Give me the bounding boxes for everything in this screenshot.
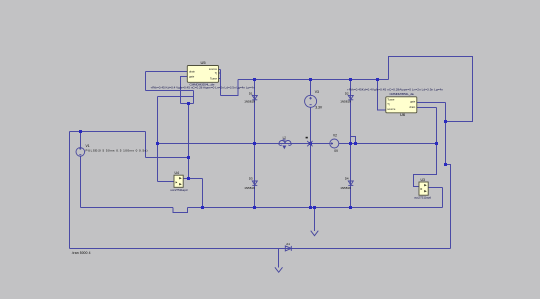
svg-text:PULSE(0 5 50ms 0.5 100ms 0 0.5: PULSE(0 5 50ms 0.5 100ms 0 0.5s): [86, 148, 148, 152]
wire drain U5 horizontal: [146, 71, 188, 73]
node mid rail end: [435, 142, 438, 145]
svg-text:D3: D3: [249, 176, 253, 180]
node rail D3: [253, 206, 256, 209]
wire U3 output drop to rail: [442, 188, 444, 208]
diode D2 symbol: [348, 95, 353, 99]
wire U5 source stub: [219, 69, 221, 71]
wire U6 drain out: [417, 107, 437, 109]
wire V1 stem top: [80, 132, 82, 148]
wire V3 leg lower: [310, 107, 312, 207]
svg-text:Tcase: Tcase: [210, 76, 218, 80]
wire mid-bottom rail left: [81, 207, 174, 209]
node V1 top junction: [79, 130, 82, 133]
source V2: [330, 139, 339, 148]
svg-text:ucc27511apd: ucc27511apd: [170, 188, 187, 192]
node top rail U6: [376, 78, 379, 81]
svg-text:1N5819: 1N5819: [340, 186, 351, 190]
wire node A horizontal: [181, 103, 194, 105]
wire sense jog: [351, 137, 356, 144]
wire bottom rail: [70, 248, 451, 250]
mosfet module U6: [386, 97, 417, 113]
node rail V3leg: [309, 206, 312, 209]
node mid rail X: [309, 142, 312, 145]
wire U6 source feed: [378, 80, 386, 111]
wire D2 D4 leg: [350, 80, 352, 208]
node top rail D2: [349, 78, 352, 81]
wire drain loop left vertical: [145, 72, 147, 91]
svg-text:gate: gate: [410, 100, 416, 104]
node U4 out join: [187, 177, 190, 180]
wire V1 stem bottom: [80, 156, 82, 207]
node top rail D1: [253, 78, 256, 81]
svg-text:+Rth=0.45 Kd=0.4 Vgfs=0.45 nC=: +Rth=0.45 Kd=0.4 Vgfs=0.45 nC=0.28 Atype…: [151, 86, 255, 90]
svg-text:3.3V: 3.3V: [315, 106, 323, 110]
wire D1 D3 leg: [254, 80, 256, 208]
diode A1 symbol: [285, 246, 291, 251]
svg-text:V2: V2: [333, 134, 337, 138]
node top rail V3: [309, 78, 312, 81]
wire drive vertical x188: [188, 104, 190, 179]
svg-text:drain: drain: [409, 105, 415, 109]
wire U5 Tj stub: [219, 72, 221, 74]
svg-text:+Rth=0.45Kd=0.4Vgfs=0.45 nC=0.: +Rth=0.45Kd=0.4Vgfs=0.45 nC=0.28Atype=0 …: [347, 87, 443, 91]
wire U4 left input: [158, 181, 175, 183]
svg-text:1N5819: 1N5819: [244, 100, 255, 104]
svg-text:L2: L2: [283, 136, 287, 140]
svg-text:1N5819: 1N5819: [244, 186, 255, 190]
wire gate cross horizontal: [158, 96, 194, 98]
wire V1 branch horizontal to node: [146, 157, 189, 159]
svg-text:V3: V3: [315, 90, 319, 94]
wire ground1 stem: [314, 208, 316, 232]
source V3: [305, 95, 317, 107]
node gate loop bottom: [444, 163, 447, 166]
source V1: [76, 148, 85, 157]
wire V3 leg upper: [310, 80, 312, 96]
svg-text:D2: D2: [345, 92, 349, 96]
node gate A: [187, 102, 190, 105]
svg-text:.tran 5000 4: .tran 5000 4: [72, 251, 91, 255]
wire rail jog: [173, 208, 188, 213]
crossing switch X: [307, 141, 312, 146]
diode D1 symbol: [252, 95, 257, 99]
wire U5 pin bus: [220, 70, 222, 96]
wire V1 branch vertical: [145, 132, 147, 158]
ground 2: [275, 267, 283, 272]
svg-text:Tj: Tj: [387, 102, 390, 106]
node rail D4: [349, 206, 352, 209]
svg-text:1N5819: 1N5819: [340, 100, 351, 104]
mosfet module U5: [187, 66, 218, 83]
svg-text:U3: U3: [421, 178, 425, 182]
svg-text:drain: drain: [189, 70, 195, 74]
wire U5 bus to rail: [221, 80, 238, 96]
wire right outer drop: [446, 165, 451, 249]
node mid rail D1: [253, 142, 256, 145]
svg-text:Tj: Tj: [215, 71, 218, 75]
svg-text:U5: U5: [201, 60, 207, 65]
wire ground2 stem: [278, 249, 280, 268]
wire drain loop right vertical: [193, 91, 195, 104]
diode D4 symbol: [348, 181, 353, 185]
wire U3 right output: [428, 187, 442, 189]
svg-text:V1: V1: [86, 144, 90, 148]
svg-text:U4: U4: [175, 171, 179, 175]
svg-text:source: source: [387, 107, 396, 111]
node mid rail jog: [354, 142, 357, 145]
svg-text:D1: D1: [249, 92, 253, 96]
svg-text:U6: U6: [400, 112, 406, 117]
wire U4 right output horizontal: [183, 178, 202, 180]
wire U6 gate drop: [445, 103, 447, 165]
ground 1: [311, 231, 319, 236]
svg-text:gate: gate: [189, 75, 195, 79]
node mid rail D2: [349, 142, 352, 145]
wire U4 output drop: [202, 179, 204, 208]
svg-text:source: source: [209, 67, 218, 71]
node rail U4: [201, 206, 204, 209]
wire top outer loop: [389, 57, 473, 122]
wire left outer vertical: [69, 132, 71, 249]
wire U5 Tcase stub: [219, 78, 221, 80]
svg-text:ucc27511apd: ucc27511apd: [414, 196, 431, 200]
wire drain loop bottom horizontal: [146, 90, 194, 92]
svg-text:D4: D4: [345, 176, 349, 180]
wire gate net vertical to U4: [157, 97, 159, 182]
wire top rail: [238, 79, 388, 81]
wire U6 drain drop: [436, 108, 438, 144]
inductor L2: [279, 139, 292, 149]
diode D3 symbol: [252, 181, 257, 185]
wire U5 gate stub and drop: [181, 77, 188, 104]
gate driver U4: [174, 175, 183, 187]
node rail gnd: [313, 206, 316, 209]
wire middle rail: [158, 143, 437, 145]
gate driver U3: [419, 182, 428, 195]
node V1 drive join: [187, 156, 190, 159]
svg-text:CMMDM3554L_die: CMMDM3554L_die: [390, 92, 415, 96]
wire V1 top horizontal: [70, 131, 146, 133]
wire U3 feed from mid rail: [414, 144, 437, 187]
node mid rail start: [156, 142, 159, 145]
wire mid-bottom rail right: [188, 207, 443, 209]
svg-text:Tcase: Tcase: [387, 98, 395, 102]
svg-text:A1: A1: [286, 242, 290, 246]
node gate loop top: [444, 120, 447, 123]
wire U6 gate out: [417, 102, 446, 104]
